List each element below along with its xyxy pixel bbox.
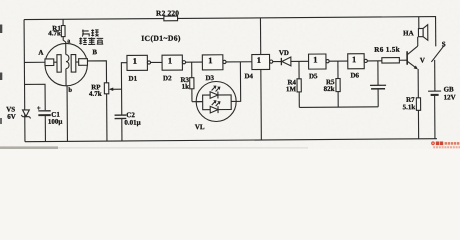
inverter D3: [202, 55, 226, 82]
svg-text:4.7k: 4.7k: [89, 90, 102, 98]
wire collector to speaker: [417, 37, 419, 46]
speaker HA: [403, 17, 428, 41]
wire B to RP: [87, 61, 106, 83]
resistor R6: [374, 46, 407, 64]
wire emitter to R7: [417, 69, 419, 98]
svg-text:1: 1: [168, 56, 172, 66]
wire D5-D6: [329, 60, 348, 62]
svg-text:GB: GB: [444, 85, 455, 93]
svg-text:12V: 12V: [444, 93, 456, 101]
capacitor C2: [115, 111, 141, 141]
transistor V: [407, 46, 425, 69]
wire top supply rail: [24, 17, 436, 20]
svg-text:6V: 6V: [7, 113, 16, 121]
resistor R3: [180, 62, 194, 102]
diode VD: [279, 49, 309, 66]
inverter D1: [127, 55, 151, 82]
svg-text:D6: D6: [350, 71, 359, 79]
svg-text:VD: VD: [279, 49, 289, 57]
resistor R7: [402, 96, 420, 139]
potentiometer RP: [89, 83, 122, 142]
inverter D2: [162, 55, 186, 82]
wire D4 out: [273, 61, 282, 63]
svg-text:R2 220: R2 220: [156, 8, 179, 17]
battery GB: [428, 60, 456, 138]
inverter D6: [348, 54, 368, 80]
svg-text:1: 1: [313, 54, 317, 64]
watermark 维库电子市场网: [431, 141, 460, 148]
wire VDD to D4: [259, 18, 261, 55]
svg-text:S: S: [442, 40, 446, 48]
resistor R1: [48, 19, 66, 43]
wire D1 input / C2 column: [121, 63, 127, 115]
svg-text:1M: 1M: [286, 85, 297, 93]
svg-text:5.1k: 5.1k: [403, 103, 416, 111]
wire D3-D4: [226, 61, 252, 63]
node a (sensor top electrode): [67, 39, 70, 45]
svg-text:0.01µ: 0.01µ: [124, 119, 140, 127]
node B: [92, 48, 97, 56]
wire D6 out: [367, 60, 381, 62]
resistor R4: [286, 61, 302, 107]
svg-text:4.7k: 4.7k: [48, 29, 61, 37]
wire left border 6V line: [23, 20, 26, 142]
node b (sensor bottom electrode): [68, 87, 72, 94]
node A: [38, 49, 43, 57]
svg-text:D1: D1: [128, 75, 137, 83]
svg-text:A: A: [38, 49, 43, 57]
svg-text:+: +: [37, 104, 41, 112]
svg-text:B: B: [92, 48, 97, 56]
svg-text:1: 1: [352, 54, 356, 64]
gas sensor QM: [45, 43, 88, 86]
svg-text:IC(D1~D6): IC(D1~D6): [141, 34, 181, 43]
resistor R2: [156, 8, 181, 20]
scan artifact left edge ticks: [0, 25, 2, 125]
svg-text:1: 1: [208, 55, 212, 65]
capacitor C1: [25, 84, 63, 142]
svg-text:82k: 82k: [324, 85, 335, 93]
svg-text:1k: 1k: [182, 83, 190, 91]
inverter D4: [244, 54, 273, 80]
wire D1-D2: [151, 61, 162, 63]
svg-text:D5: D5: [309, 72, 318, 80]
wire D2-D3: [186, 61, 203, 63]
label IC(D1~D6): [141, 34, 181, 43]
svg-text:R6 1.5k: R6 1.5k: [374, 46, 400, 54]
zener diode VS: [6, 105, 30, 120]
wire VSS from D4: [260, 69, 263, 139]
svg-text:1: 1: [257, 55, 261, 65]
switch S: [431, 17, 446, 92]
wire bottom ground rail: [25, 139, 437, 142]
svg-text:1: 1: [133, 56, 137, 66]
svg-text:D3: D3: [205, 74, 214, 82]
svg-text:V: V: [420, 56, 425, 64]
resistor R5: [323, 61, 340, 107]
capacitor C3: [370, 61, 386, 107]
svg-text:b: b: [68, 87, 72, 94]
wire sensor b to ground: [66, 86, 68, 142]
scan artifact bottom smudge: [0, 146, 308, 149]
svg-text:D2: D2: [163, 74, 172, 82]
wire R4-R5-C3 bottom net: [299, 106, 378, 109]
svg-text:100µ: 100µ: [48, 118, 63, 126]
svg-text:VL: VL: [195, 123, 205, 131]
LED indicator VL: [192, 62, 241, 131]
label 气敏 传感器 (gas sensor): [79, 29, 103, 44]
svg-text:D4: D4: [244, 72, 253, 80]
inverter D5: [309, 54, 330, 80]
wire heater A to 6V line: [24, 61, 44, 63]
svg-text:HA: HA: [403, 29, 414, 37]
